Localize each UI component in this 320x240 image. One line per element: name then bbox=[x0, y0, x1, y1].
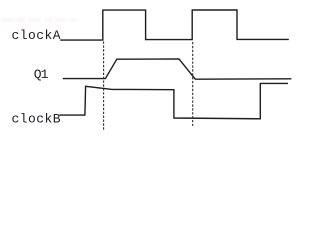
svg-text:clockA: clockA bbox=[12, 28, 62, 43]
label Q1 bbox=[34, 67, 49, 82]
svg-text:Q1: Q1 bbox=[34, 67, 49, 82]
clockA waveform bbox=[60, 10, 288, 40]
Q1 waveform bbox=[63, 59, 292, 79]
faint watermark bbox=[1, 18, 77, 23]
svg-text:clockB: clockB bbox=[12, 111, 62, 126]
label clockB bbox=[12, 111, 62, 126]
dashed time marker t2 bbox=[192, 42, 194, 126]
label clockA bbox=[12, 28, 62, 43]
clockB waveform bbox=[60, 83, 289, 118]
dashed time marker t1 bbox=[103, 42, 105, 132]
